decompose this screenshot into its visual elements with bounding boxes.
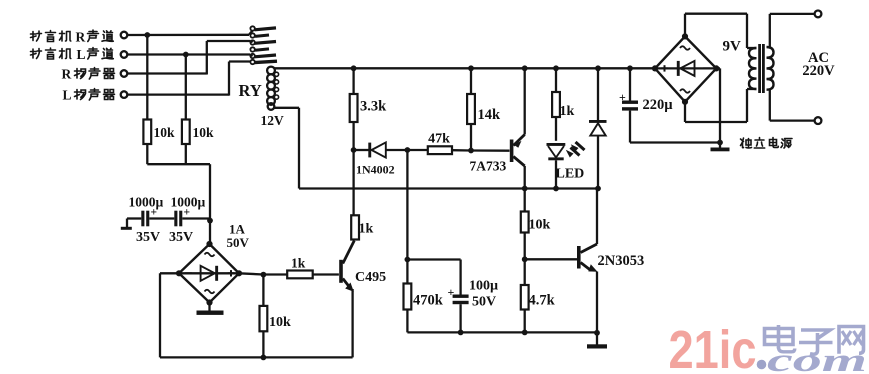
terminal: amplifier L channel (121, 51, 128, 58)
label: 扩音机 R 声道 (amplifier R channel) (31, 30, 114, 45)
svg-text:L: L (77, 47, 86, 62)
svg-text:1k: 1k (560, 104, 575, 119)
junction: bus / 7A733 emitter (522, 65, 528, 71)
diode 1N4002 (354, 142, 408, 157)
chassis stub (121, 219, 132, 230)
wire: R channel line to relay contact (127, 31, 252, 36)
resistor 10k (L channel load) (182, 55, 190, 165)
wire: 3.3k bottom down to 1k (crosses bus2) (352, 150, 354, 215)
wire: base feed to 7A733 (471, 149, 510, 151)
bridge rectifier B1 1A 50V (176, 241, 242, 306)
resistor 14k (467, 68, 475, 150)
junction: 47k / 14k / 7A733 base (468, 148, 474, 154)
junction: bus / 14k (468, 65, 474, 71)
svg-text:4.7k: 4.7k (529, 293, 556, 309)
svg-text:470k: 470k (413, 293, 444, 309)
junction: bus / 3.3k (351, 65, 357, 71)
resistor 4.7k (521, 259, 529, 332)
svg-text:10k: 10k (269, 315, 291, 330)
resistor 10k (C495 base bias) (260, 275, 268, 358)
transistor 2N3053 (NPN) (577, 189, 598, 334)
svg-text:10k: 10k (529, 218, 551, 233)
svg-text:220V: 220V (802, 63, 835, 79)
junction: 10k / 4.7k / base (522, 256, 528, 262)
label: 独立电源 (independent supply) (741, 138, 793, 149)
junction: 1N4002 / 470k branch (405, 147, 411, 153)
wire: B2 bottom to transformer secondary (685, 89, 757, 122)
capacitor 100u 50V (electrolytic) (448, 260, 469, 333)
svg-text:2N3053: 2N3053 (598, 253, 645, 269)
wire: junction to 100u (407, 258, 460, 260)
svg-text:1000µ: 1000µ (171, 195, 206, 210)
watermark: .com (757, 343, 867, 374)
wire: supply ground rail (630, 141, 720, 143)
svg-text:35V: 35V (169, 230, 193, 245)
junction: bus / diode (595, 65, 601, 71)
junction: caps / bridge B1 top (207, 218, 213, 224)
svg-text:10k: 10k (193, 125, 215, 140)
capacitor 1000u 35V (right) (174, 207, 210, 227)
svg-text:3.3k: 3.3k (360, 99, 387, 115)
transformer T1 9V/220V (749, 44, 774, 93)
junction: rail/2N3053 emitter (594, 330, 600, 336)
ground (main) (587, 333, 607, 349)
svg-text:LED: LED (556, 167, 585, 182)
resistor 1k (LED) (552, 68, 560, 141)
svg-text:10k: 10k (154, 125, 176, 140)
wire: bottom-left rail (160, 273, 353, 357)
svg-text:R: R (62, 67, 72, 82)
junction: rail / 10k (261, 355, 267, 361)
svg-text:50V: 50V (472, 295, 496, 310)
resistor 470k (404, 260, 412, 333)
svg-text:50V: 50V (227, 235, 250, 250)
watermark: 电子网 (765, 325, 864, 354)
ground (independent supply) (711, 143, 730, 152)
wire: 10k loads join and feed coupling caps (147, 164, 210, 220)
svg-text:100µ: 100µ (469, 279, 498, 294)
label: 扩音机 L 声道 (amplifier L channel) (31, 47, 114, 62)
wire: relay return bus (299, 187, 598, 189)
junction: 470k / 100u top (405, 257, 411, 263)
label: L 扬声器 (L speaker) (63, 88, 115, 103)
junction: rail/4.7k (522, 330, 528, 336)
relay coil RY 12V (267, 67, 279, 110)
wire: L speaker line with riser to relay contact (127, 62, 250, 96)
svg-text:1k: 1k (291, 256, 306, 271)
diode (relay protection) (589, 68, 607, 188)
wire: bridge+ to C495 base network (239, 273, 263, 274)
svg-text:47k: 47k (428, 132, 450, 147)
wire: B2 minus down to ground (716, 68, 720, 142)
junction: bus2 / diode-2N3053 (595, 186, 601, 192)
capacitor 1000u 35V (left) (127, 207, 157, 227)
wire: +12V top bus (275, 67, 656, 69)
svg-text:9V: 9V (723, 39, 742, 55)
svg-text:35V: 35V (136, 230, 160, 245)
resistor 10k (2N3053 base) (521, 189, 529, 260)
terminal: amplifier R channel (121, 32, 128, 39)
LED (547, 142, 585, 189)
resistor 47k (407, 146, 471, 154)
transistor C495 (NPN) (339, 241, 354, 358)
terminal: R speaker (121, 70, 128, 77)
svg-text:21ic: 21ic (669, 320, 757, 374)
wire: emitter/RC bottom rail (407, 331, 597, 333)
terminal: L speaker (121, 91, 128, 98)
wire: between caps (149, 217, 174, 219)
svg-text:1k: 1k (359, 222, 374, 237)
wire: base feed to 2N3053 (525, 258, 579, 260)
svg-text:7A733: 7A733 (470, 159, 507, 174)
svg-text:1N4002: 1N4002 (356, 163, 395, 177)
bridge rectifier B2 (independent supply) (652, 33, 720, 105)
wire: R speaker line with riser to relay contact (127, 41, 252, 75)
wire: primary top to AC terminal (770, 14, 815, 48)
ground (bridge B1) (197, 303, 224, 315)
wire: L channel line to relay contact (127, 55, 252, 57)
wire: 1N4002 junction down to 470k (crosses bus2) (406, 150, 408, 260)
svg-text:220µ: 220µ (643, 97, 674, 113)
junction: 3.3k / 1N4002 (351, 147, 357, 153)
junction: L channel / 10k (183, 52, 189, 58)
junction: rail/100u (458, 330, 464, 336)
label: R 扬声器 (R speaker) (62, 67, 115, 82)
junction: bus / 220u (627, 65, 633, 71)
junction: bus2 / 7A733 collector (522, 186, 528, 192)
relay contact block (4 contacts of RY) (250, 26, 277, 64)
wire: coil bottom to lower bus riser (275, 108, 300, 189)
transistor 7A733 (PNP) (510, 68, 525, 188)
junction: bus2 / LED (553, 186, 559, 192)
capacitor 220u (filter) (619, 68, 638, 142)
wire: primary bottom to AC terminal (770, 89, 815, 120)
resistor 1k (C495 collector) (351, 215, 359, 239)
wire: B2 top to transformer secondary (685, 14, 757, 48)
junction: bridge+ / 1k / 10k (261, 272, 267, 278)
junction: ground rail (717, 140, 723, 146)
terminal: AC top (815, 11, 822, 18)
svg-text:1000µ: 1000µ (129, 195, 164, 210)
resistor 3.3k (350, 68, 358, 150)
junction: bus / 1k (553, 65, 559, 71)
svg-text:R: R (76, 30, 86, 45)
svg-text:12V: 12V (261, 113, 285, 128)
svg-text:14k: 14k (478, 107, 502, 123)
svg-text:C495: C495 (355, 270, 386, 285)
wire: junction down to bridge B1 (209, 221, 211, 244)
resistor 1k (C495 base) (263, 271, 339, 279)
junction: R channel / 10k (144, 32, 150, 38)
svg-text:RY: RY (239, 81, 262, 100)
svg-text:L: L (63, 88, 72, 103)
terminal: AC bottom (815, 117, 822, 124)
resistor 10k (R channel load) (143, 35, 151, 164)
